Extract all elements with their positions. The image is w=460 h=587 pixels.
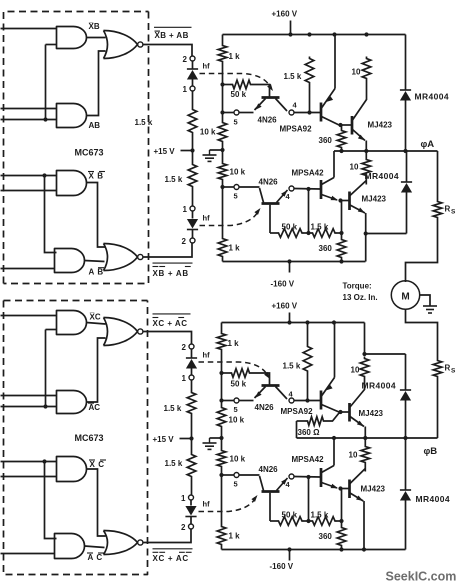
AND gate MC673 (AB) [57,104,87,128]
resistor 10 (R25) [361,445,370,465]
wire input A (AND4 bottom) [1,268,55,270]
NOR gate U2 (XbBb+ABb) [104,244,108,271]
resistor 360ohm (R24) [297,420,306,422]
wire input A (AND7 bottom) [1,476,57,478]
svg-text:Torque:: Torque: [343,282,372,291]
wire [222,182,224,237]
svg-text:360: 360 [319,244,333,253]
wire AND7 output to NOR4 [87,469,106,536]
resistor 1.5k (R8) [305,57,314,85]
svg-text:XC + AC: XC + AC [153,319,188,328]
wire pin5 (Q7) [222,400,237,402]
rectifier MR4004 D3 [405,35,407,90]
transistor MJ423 Q4 [351,116,354,135]
hf dashed coupling D6 to Q8 [199,500,255,512]
resistor 360 (R14) [337,238,346,260]
wire AND1 lower input riser [46,44,57,46]
ground (top) [220,148,224,152]
svg-text:R: R [445,205,451,214]
node Q3 collector / Q4 base [338,123,342,127]
svg-text:4N26: 4N26 [255,403,275,412]
wire [192,91,194,107]
wire Rs to phiB [437,379,439,439]
resistor 1.5k (R22) [303,345,312,374]
resistor 50k (R12) [270,232,277,234]
svg-text:AC: AC [89,403,101,412]
svg-text:+15 V: +15 V [153,435,175,444]
svg-text:-160 V: -160 V [270,562,294,571]
pin 1 of LED D6 [189,495,194,500]
junction [364,231,368,235]
wire pin4 to MPSA92 base (bottom) [294,400,320,402]
wire [239,474,259,476]
resistor 1.5k (R2) [188,163,197,189]
svg-text:φA: φA [421,139,435,150]
svg-text:1: 1 [182,374,187,383]
svg-text:10: 10 [350,163,359,172]
wire AND1 output [87,37,106,39]
svg-text:-160 V: -160 V [271,280,295,289]
resistor 10k (R20) [217,449,226,469]
rail corner to 10 ohm (bottom) [364,323,366,355]
resistor 1k (R7) [218,237,227,259]
label output XbCb+ACb (overbar) [153,548,193,550]
svg-text:XB + AB: XB + AB [153,269,189,278]
svg-text:2: 2 [182,237,187,246]
svg-text:1.5 k: 1.5 k [165,459,183,468]
resistor 1.5k (R15) [187,391,196,416]
svg-text:MJ423: MJ423 [361,485,386,494]
svg-text:hf: hf [203,214,211,223]
+160V rail (top) [223,34,406,36]
AND gate MC673 (XC) [57,311,87,335]
pin 5 of 4N26 Q2 [234,185,239,190]
svg-text:hf: hf [203,500,211,509]
svg-text:50 k: 50 k [231,90,247,99]
resistor 1.5k (R27) [311,517,338,526]
pin 5 of 4N26 Q7 [234,398,239,403]
wire AND8 output [85,546,105,548]
LED D5 (4N26 input) [191,349,193,357]
svg-text:10 k: 10 k [230,455,246,464]
svg-text:X B: X B [89,172,104,181]
wire 50k to base of Q1 [253,85,270,97]
transistor MPSA42 Q5 [320,180,323,199]
node 50k junction (bottom) [219,371,223,375]
+160V rail (bottom) [222,322,365,324]
wire pin5 (Q1) [223,112,237,114]
wire Rs to motor [406,220,438,283]
svg-text:XC + AC: XC + AC [153,554,189,563]
dashed box MC673 logic (top) [4,12,149,284]
resistor 10 (R11) [362,158,371,178]
wire AND8 top riser [45,462,57,539]
pin 5 of 4N26 Q1 [234,110,239,115]
pin 1 of LED D2 [190,206,195,211]
svg-text:MJ423: MJ423 [368,121,393,130]
wire pin5 (Q2) [223,186,237,188]
svg-text:5: 5 [234,192,238,201]
phase B mid rail [297,437,438,439]
NOR gate U4 (XbCb+ACb) [104,531,108,555]
wire [366,81,368,101]
wire input X (AND3 top) [1,175,57,177]
wire AND4 output [85,261,105,262]
svg-text:MPSA92: MPSA92 [281,407,314,416]
wire [221,469,223,525]
wire input A (AND2 top) [1,108,57,110]
svg-text:4N26: 4N26 [259,178,279,187]
pin 2 of LED D2 [190,238,195,243]
svg-text:10 k: 10 k [200,128,216,137]
pin 4 of 4N26 Q7 [289,398,294,403]
motor ground [419,295,430,306]
resistor Rs (bottom) [433,359,442,379]
motor M [391,281,419,309]
svg-text:2: 2 [183,55,188,64]
svg-text:1 k: 1 k [228,339,240,348]
svg-text:hf: hf [203,351,211,360]
wire AND6 output to NOR3 [87,338,106,402]
svg-text:4N26: 4N26 [259,465,279,474]
resistor 1.5k (R13) [311,229,338,238]
wire AND2 output to NOR1 [87,51,106,116]
svg-text:1 k: 1 k [229,244,241,253]
resistor 50k (R4) [223,84,231,86]
resistor 10 (R23) [360,357,369,379]
svg-text:4N26: 4N26 [258,116,278,125]
svg-text:1.5 k: 1.5 k [284,72,302,81]
svg-text:50 k: 50 k [282,223,298,232]
wire NOR1 output [143,45,192,56]
resistor 50k (R18) [222,372,230,374]
pin 1 of LED D1 [190,86,195,91]
svg-text:1: 1 [183,85,188,94]
svg-text:M: M [401,292,409,303]
wire input A (AND3 bottom) [1,190,57,192]
pin 2 of LED D5 [189,344,194,349]
svg-text:1 k: 1 k [229,532,241,541]
pin 4 of 4N26 Q2 [289,186,294,191]
wire base drop Q8 to 50k [269,493,271,521]
resistor 1k (R17) [217,332,226,352]
hf dashed coupling D1 to Q1 [200,74,270,86]
svg-text:10: 10 [352,68,361,77]
svg-text:1.5 k: 1.5 k [283,362,301,371]
resistor 10 (R9) [362,57,371,81]
resistor 360 (R10) [341,125,343,129]
wire MR4004 D7 feed [365,353,406,355]
svg-text:MC673: MC673 [75,433,104,443]
rectifier MR4004 D7 [405,354,407,390]
svg-text:1 k: 1 k [229,52,241,61]
svg-text:5: 5 [234,480,238,489]
svg-text:S: S [451,209,456,216]
svg-text:+15 V: +15 V [154,147,176,156]
node 50k junction [220,82,224,86]
label output XbBb+ABb (overbar) [153,262,193,264]
wire NOR3 output [143,332,192,344]
wire [222,35,224,44]
wire [221,352,223,406]
svg-text:MR4004: MR4004 [365,171,400,181]
LED D6 (4N26 input) [190,500,192,505]
wire pin4 to MPSA42 base (bottom) [294,476,320,479]
junction pin5 wire (Q8) [219,473,223,477]
AND gate MC673 (XB) [57,27,87,49]
svg-text:1.5 k: 1.5 k [164,404,182,413]
dashed box MC673 logic (bottom) [4,300,148,302]
transistor MPSA92 Q3 [320,103,323,122]
wire [192,135,194,163]
junction 50k/1.5k riser (bottom) [308,477,310,521]
NOR gate U1 (XB+AB) [104,31,108,59]
wire base node riser (bottom) [341,489,343,522]
wire NOR4 output [143,530,191,543]
AND gate MC673 (XB bar) [57,171,87,196]
label output XC+AC (overbar) [153,313,191,315]
svg-text:MPSA42: MPSA42 [292,455,325,464]
junction pin5 wire (Q7) [219,398,223,402]
svg-text:+160 V: +160 V [272,302,298,311]
wire input A (AND8 bottom) [1,553,55,555]
node Q5 emitter / Q6 base [338,198,342,202]
wire 50k to base of Q7 [252,373,270,385]
wire pin4 to MPSA42 base [294,188,320,191]
NOR gate U3 (XC+AC) [104,318,108,346]
svg-text:1.5 k: 1.5 k [135,118,153,127]
rectifier MR4004 D4 [406,151,408,182]
svg-text:A C: A C [88,553,103,562]
AND gate MC673 (AC) [57,391,87,414]
pin 4 of 4N26 Q1 [289,110,294,115]
junction pin5 wire [220,110,224,114]
wire [307,323,309,345]
wire NOR2 output [143,244,192,258]
AND gate MC673 (AB bar) [55,249,85,273]
svg-text:MPSA42: MPSA42 [292,169,325,178]
wire [364,438,366,445]
label output XB+AB (overbar) [154,26,192,28]
svg-text:X C: X C [90,460,105,469]
wire AND3 output to NOR2 [87,183,106,248]
svg-text:360: 360 [319,136,333,145]
svg-text:MC673: MC673 [75,148,104,158]
resistor 50k (R26) [270,520,277,522]
wire input C (AND6 bottom) [1,406,57,408]
svg-text:50 k: 50 k [282,511,298,520]
resistor 1k (R3) [218,44,227,64]
wire [239,112,253,114]
svg-text:2: 2 [182,343,187,352]
svg-text:SeekIC.com: SeekIC.com [386,570,457,584]
rectifier MR4004 D8 [405,438,407,490]
optocoupler 4N26 Q2 phototransistor [262,202,280,205]
svg-text:2: 2 [181,523,186,532]
wire base node riser [341,201,343,234]
junction pin5 wire 2 [220,185,224,189]
svg-text:X̅B: X̅B [88,22,100,31]
optocoupler 4N26 Q7 phototransistor [262,384,280,387]
transistor MPSA42 Q11 [320,468,323,487]
wire MR4004 D4 return [366,233,407,235]
-160V supply (top) [289,262,291,273]
wire input X (AND1 top) [1,28,57,30]
svg-text:hf: hf [203,62,211,71]
wire AND5 lower input riser [46,329,57,331]
optocoupler 4N26 Q1 phototransistor [262,96,280,99]
wire pin5 (Q8) [222,474,237,476]
transistor MJ423 Q10 [348,403,351,422]
junction Bbar [42,173,46,177]
resistor 10k (R6) [218,162,227,182]
resistor 10k (R19) [217,406,226,429]
pin 1 of LED D5 [189,375,194,380]
optocoupler 4N26 Q8 phototransistor [262,490,280,493]
wire [222,64,224,121]
svg-text:5: 5 [234,405,238,414]
hf dashed coupling D2 to Q2 [200,213,258,226]
resistor 10k (R5) [218,121,227,144]
svg-text:10: 10 [349,451,358,460]
wire AND4 top riser [45,176,57,253]
svg-text:φB: φB [424,446,438,457]
svg-text:1: 1 [181,494,186,503]
svg-text:MPSA92: MPSA92 [280,125,313,134]
junction Cbar [42,459,46,463]
svg-text:MJ423: MJ423 [362,195,387,204]
svg-text:10: 10 [351,366,360,375]
svg-text:50 k: 50 k [231,380,247,389]
svg-text:1.5 k: 1.5 k [165,175,183,184]
pin 5 of 4N26 Q8 [234,473,239,478]
svg-text:R: R [445,364,451,373]
svg-text:A B: A B [89,268,104,277]
wire input B (AND2 bottom) [1,119,57,121]
svg-text:+160 V: +160 V [272,10,298,19]
wire base drop Q2 to 50k [269,205,271,233]
pin 4 of 4N26 Q8 [289,474,294,479]
wire [365,151,367,158]
transistor MPSA92 Q9 [320,391,323,410]
wire input X (AND5 top) [1,315,57,317]
LED D1 (4N26 input) [192,61,194,68]
svg-text:1: 1 [183,205,188,214]
wire [222,144,224,162]
pin 2 of LED D6 [189,524,194,529]
wire motor to Rs (bottom) [406,309,438,358]
wire [191,479,193,495]
svg-text:360: 360 [319,532,333,541]
svg-text:S: S [451,368,456,375]
svg-text:MR4004: MR4004 [362,381,397,391]
transistor MJ423 Q6 [348,192,351,211]
pin 2 of 4N26 LED D1 [190,56,195,61]
svg-text:10 k: 10 k [230,168,246,177]
AND gate MC673 (XCbar) [57,457,87,482]
hf dashed coupling D5 to Q7 [199,362,267,374]
resistor 1k (R21) [217,525,226,547]
junction 50k/1.5k riser [308,189,310,233]
wire input X (AND7 top) [1,461,57,463]
svg-text:MR4004: MR4004 [415,92,450,102]
svg-text:1.5 k: 1.5 k [311,223,329,232]
wire [364,379,366,391]
wire [191,380,193,390]
resistor 1.5k (R1) [188,108,197,135]
wire [239,186,259,188]
svg-text:5: 5 [234,118,238,127]
svg-text:MJ423: MJ423 [359,409,384,418]
wire [192,189,194,206]
svg-text:XB + AB: XB + AB [155,31,189,40]
-160V rail (bottom) [221,547,223,550]
-160V supply (bottom) [289,550,291,561]
wire input A (AND6 top) [1,395,57,397]
svg-text:360 Ω: 360 Ω [298,428,321,437]
wire [191,416,193,453]
wire [221,323,223,332]
resistor 360 (R28) [337,526,346,548]
svg-text:MR4004: MR4004 [416,494,451,504]
AND gate MC673 (ACbar) [55,534,85,559]
ground (bottom) [219,436,223,440]
node Q11 emitter / Q12 base [338,486,342,490]
junction C [43,404,47,408]
phase A mid rail [334,150,438,152]
svg-text:X̅C: X̅C [89,313,101,322]
node Q9 collector / Q10 base [338,410,342,414]
wire AND5 output [87,323,106,325]
transistor MJ423 Q12 [348,480,351,499]
svg-text:10 k: 10 k [229,416,245,425]
-160V rail (top) [222,259,224,262]
wire [239,400,253,402]
svg-text:AB: AB [89,121,101,130]
wire pin4 to MPSA92 base [294,112,320,114]
LED D2 (4N26 input) [192,211,194,218]
junction B [43,117,47,121]
resistor 1.5k (R16) [187,453,196,479]
wire [309,85,311,113]
svg-text:13 Oz. In.: 13 Oz. In. [343,293,378,302]
svg-text:1.5 k: 1.5 k [311,511,329,520]
resistor Rs (top) [437,151,439,200]
wire [221,429,223,449]
